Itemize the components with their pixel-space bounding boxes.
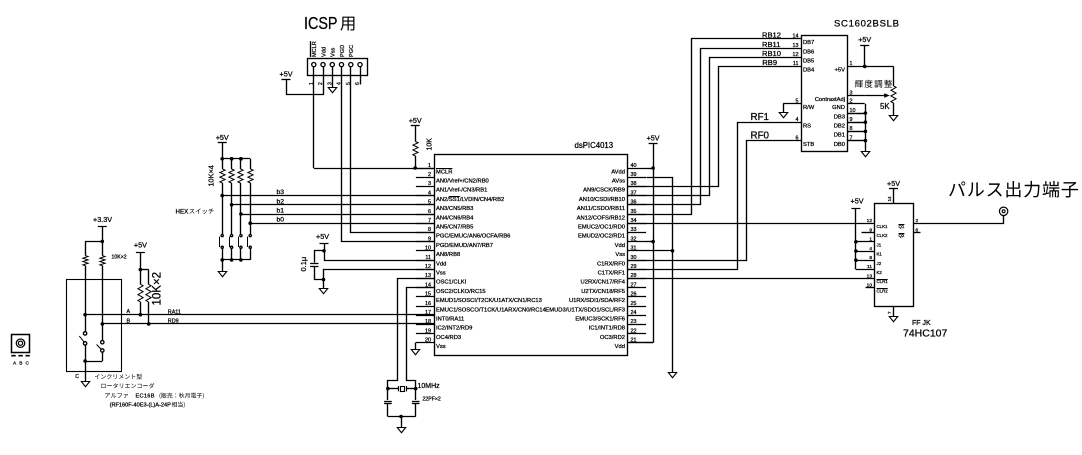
- svg-text:CLK2: CLK2: [877, 233, 889, 238]
- svg-text:13: 13: [793, 43, 799, 49]
- svg-text:+5V: +5V: [134, 240, 147, 249]
- svg-text:CLR2: CLR2: [877, 288, 889, 293]
- svg-text:Vdd: Vdd: [615, 344, 625, 350]
- svg-text:U1RX/SDI1/SDA/RF2: U1RX/SDI1/SDA/RF2: [569, 298, 625, 304]
- svg-text:7: 7: [887, 311, 892, 314]
- svg-text:B: B: [19, 361, 22, 367]
- svg-text:Vss: Vss: [615, 252, 625, 258]
- svg-text:DB1: DB1: [834, 133, 845, 139]
- svg-text:C: C: [75, 374, 79, 380]
- svg-text:IC2/INT2/RD9: IC2/INT2/RD9: [436, 326, 472, 332]
- svg-text:PGC/EMUC/AN6/OCFA/RB6: PGC/EMUC/AN6/OCFA/RB6: [436, 234, 510, 240]
- svg-text:DB2: DB2: [834, 124, 845, 130]
- svg-text:+5V: +5V: [858, 35, 871, 44]
- svg-text:AN9/CSCK/RB9: AN9/CSCK/RB9: [583, 188, 625, 194]
- svg-text:32: 32: [631, 236, 637, 242]
- svg-text:AVdd: AVdd: [611, 169, 625, 175]
- svg-text:11: 11: [793, 61, 799, 67]
- svg-text:RD9: RD9: [168, 319, 179, 325]
- svg-text:2: 2: [850, 99, 853, 105]
- svg-text:23: 23: [631, 319, 637, 325]
- svg-text:10K×2: 10K×2: [152, 272, 164, 306]
- svg-text:14: 14: [887, 196, 892, 202]
- svg-text:4: 4: [796, 117, 799, 123]
- svg-text:19: 19: [425, 328, 431, 334]
- svg-text:EMUD3/U1TX/SDO1/SCL/RF3: EMUD3/U1TX/SDO1/SCL/RF3: [545, 307, 625, 313]
- svg-text:b2: b2: [277, 198, 285, 205]
- svg-text:6: 6: [355, 82, 361, 85]
- svg-text:6: 6: [796, 135, 799, 141]
- svg-text:RF1: RF1: [751, 112, 770, 123]
- svg-text:b3: b3: [277, 189, 285, 196]
- svg-text:3: 3: [428, 181, 431, 187]
- svg-text:2: 2: [428, 172, 431, 178]
- svg-text:+5V: +5V: [316, 232, 329, 241]
- svg-text:18: 18: [425, 319, 431, 325]
- svg-text:Vss: Vss: [436, 344, 446, 350]
- svg-text:STB: STB: [803, 142, 814, 148]
- svg-text:RF0: RF0: [751, 131, 770, 142]
- svg-text:+5V: +5V: [280, 70, 293, 79]
- svg-text:22: 22: [631, 328, 637, 334]
- svg-text:DB0: DB0: [834, 142, 845, 148]
- svg-text:AN8/RB8: AN8/RB8: [436, 252, 460, 258]
- svg-text:1: 1: [850, 61, 853, 67]
- svg-text:+5V: +5V: [647, 133, 660, 142]
- svg-text:10: 10: [425, 246, 431, 252]
- svg-text:J1: J1: [877, 242, 882, 247]
- svg-text:40: 40: [631, 163, 637, 169]
- svg-text:14: 14: [793, 34, 799, 40]
- svg-text:74HC107: 74HC107: [903, 328, 948, 340]
- svg-text:EMUC2/OC1/RD0: EMUC2/OC1/RD0: [578, 225, 625, 231]
- svg-text:EMUD1/SOSCI/T2CK/U1ATX/CN1/RC1: EMUD1/SOSCI/T2CK/U1ATX/CN1/RC13: [436, 298, 542, 304]
- svg-text:DB4: DB4: [803, 68, 815, 74]
- svg-text:OSC2/CLKO/RC15: OSC2/CLKO/RC15: [436, 289, 486, 295]
- svg-text:PGC: PGC: [349, 45, 355, 57]
- svg-text:INT0/RA11: INT0/RA11: [436, 317, 464, 323]
- svg-text:IC1/INT1/RD8: IC1/INT1/RD8: [589, 326, 625, 332]
- svg-text:+5V: +5V: [887, 179, 900, 188]
- svg-text:FF JK: FF JK: [912, 320, 931, 327]
- svg-text:OSC1/CLKI: OSC1/CLKI: [436, 280, 467, 286]
- svg-text:K1: K1: [877, 252, 883, 257]
- svg-text:AN12/COFS/RB12: AN12/COFS/RB12: [577, 215, 625, 221]
- svg-text:b1: b1: [277, 208, 285, 215]
- svg-text:AN2/SS1/LVDIN/CN4/RB2: AN2/SS1/LVDIN/CN4/RB2: [436, 197, 504, 203]
- svg-text:RS: RS: [803, 124, 811, 130]
- svg-text:Vdd: Vdd: [321, 47, 327, 57]
- svg-text:Vss: Vss: [436, 271, 446, 277]
- svg-text:AN3/CN5/RB3: AN3/CN5/RB3: [436, 206, 473, 212]
- svg-text:ContrastAdj: ContrastAdj: [815, 97, 845, 103]
- svg-text:OC4/RD3: OC4/RD3: [436, 335, 461, 341]
- svg-text:U2TX/CN18/RF5: U2TX/CN18/RF5: [581, 289, 625, 295]
- svg-text:dsPIC4013: dsPIC4013: [575, 141, 614, 150]
- svg-text:K2: K2: [877, 270, 883, 275]
- svg-text:EMUC3/SCK1/RF6: EMUC3/SCK1/RF6: [575, 317, 625, 323]
- svg-text:ICSP: ICSP: [304, 13, 338, 33]
- svg-text:(RF160F-40E3-(L)A-24P: (RF160F-40E3-(L)A-24P: [110, 403, 172, 409]
- svg-text:A: A: [127, 309, 131, 315]
- svg-text:5: 5: [796, 99, 799, 105]
- svg-text:AN4/CN6/RB4: AN4/CN6/RB4: [436, 215, 474, 221]
- svg-text:0.1μ: 0.1μ: [299, 257, 308, 272]
- svg-text:SC1602BSLB: SC1602BSLB: [834, 19, 900, 30]
- svg-text:AN5/CN7/RB5: AN5/CN7/RB5: [436, 225, 473, 231]
- svg-text:22PF×2: 22PF×2: [423, 397, 441, 403]
- svg-text:25: 25: [631, 301, 637, 307]
- svg-text:27: 27: [631, 282, 637, 288]
- svg-text:U2RX/CN17/RF4: U2RX/CN17/RF4: [581, 280, 626, 286]
- svg-text:Vdd: Vdd: [615, 243, 625, 249]
- svg-text:10K: 10K: [427, 138, 434, 151]
- svg-text:10MHz: 10MHz: [418, 383, 441, 390]
- svg-text:33: 33: [631, 227, 637, 233]
- svg-text:B: B: [127, 318, 131, 324]
- svg-text:RB10: RB10: [762, 49, 781, 58]
- svg-text:26: 26: [631, 292, 637, 298]
- svg-text:DB6: DB6: [803, 49, 814, 55]
- svg-text:C1RX/RF0: C1RX/RF0: [597, 261, 625, 267]
- svg-text:RB11: RB11: [762, 40, 780, 49]
- svg-text:EMUC1/SOSCO/T1CK/U1ARX/CN0/RC1: EMUC1/SOSCO/T1CK/U1ARX/CN0/RC14: [436, 307, 547, 313]
- svg-text:RB12: RB12: [762, 31, 781, 40]
- svg-text:10K×4: 10K×4: [207, 165, 216, 186]
- svg-text:EC16B: EC16B: [136, 394, 155, 400]
- svg-text:3: 3: [850, 90, 853, 96]
- svg-text:31: 31: [631, 246, 637, 252]
- svg-text:CLK1: CLK1: [877, 224, 889, 229]
- svg-text:RA11: RA11: [168, 309, 181, 315]
- svg-text:b0: b0: [277, 217, 285, 224]
- svg-text:+5V: +5V: [835, 68, 846, 74]
- svg-text:PGD/EMUD/AN7/RB7: PGD/EMUD/AN7/RB7: [436, 243, 493, 249]
- svg-text:10K×2: 10K×2: [112, 255, 127, 261]
- svg-text:C1TX/RF1: C1TX/RF1: [598, 271, 625, 277]
- svg-text:GND: GND: [832, 105, 845, 111]
- svg-text:RB9: RB9: [762, 58, 777, 67]
- svg-text:39: 39: [631, 172, 637, 178]
- svg-text:R/W: R/W: [803, 105, 815, 111]
- svg-text:PGD: PGD: [340, 45, 346, 57]
- svg-text:+5V: +5V: [409, 116, 422, 125]
- svg-text:Vss: Vss: [331, 47, 337, 57]
- svg-text:16: 16: [425, 301, 431, 307]
- svg-text:12: 12: [793, 52, 799, 58]
- svg-text:AN10/CSDI/RB10: AN10/CSDI/RB10: [579, 197, 625, 203]
- svg-text:DB3: DB3: [834, 114, 845, 120]
- svg-text:AN1/Vref-/CN3/RB1: AN1/Vref-/CN3/RB1: [436, 188, 487, 194]
- svg-text:AN0/Vref+/CN2/RB0: AN0/Vref+/CN2/RB0: [436, 179, 489, 185]
- svg-text:MCLR: MCLR: [436, 169, 452, 175]
- svg-text:24: 24: [631, 310, 637, 316]
- svg-text:OC3/RD2: OC3/RD2: [600, 335, 625, 341]
- svg-text:DB5: DB5: [803, 59, 814, 65]
- svg-text:J2: J2: [877, 261, 882, 266]
- svg-text:15: 15: [425, 292, 431, 298]
- svg-text:AVss: AVss: [612, 179, 625, 185]
- svg-text:DB7: DB7: [803, 40, 814, 46]
- svg-text:20: 20: [425, 338, 431, 344]
- svg-text:+3.3V: +3.3V: [93, 215, 112, 224]
- svg-text:MCLR: MCLR: [312, 41, 318, 57]
- svg-text:Vdd: Vdd: [436, 261, 446, 267]
- svg-text:EMUD2/OC2/RD1: EMUD2/OC2/RD1: [578, 234, 625, 240]
- svg-text:+5V: +5V: [216, 133, 229, 142]
- svg-text:HEX: HEX: [176, 209, 189, 216]
- svg-text:C: C: [26, 361, 30, 367]
- svg-text:5K: 5K: [880, 102, 890, 111]
- svg-text:+5V: +5V: [851, 196, 864, 205]
- svg-text:AN11/CSDO/RB11: AN11/CSDO/RB11: [577, 206, 625, 212]
